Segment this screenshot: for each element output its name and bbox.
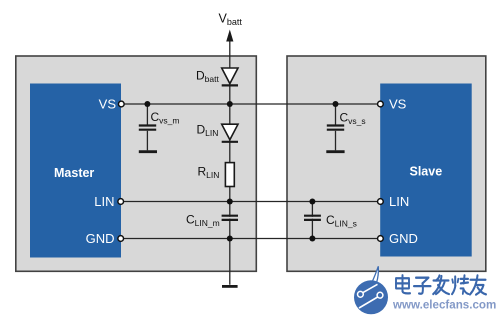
- master ECU enclosure: [16, 56, 256, 271]
- junction Cvs_s: [333, 101, 339, 107]
- svg-text:LIN: LIN: [94, 194, 114, 209]
- junction CLIN_s top: [309, 199, 315, 205]
- junction VS-rail: [227, 101, 233, 107]
- ground Cvs_s: [326, 150, 344, 153]
- watermark logo stem: [372, 266, 379, 283]
- diode DLIN: [222, 124, 238, 142]
- resistor RLIN: [225, 163, 234, 187]
- junction CLIN_s bottom: [309, 236, 315, 242]
- svg-text:VS: VS: [389, 97, 407, 112]
- hanzi shao: [452, 275, 469, 294]
- master node IC: [30, 84, 121, 258]
- svg-text:LIN: LIN: [389, 194, 409, 209]
- watermark logo disc: [354, 280, 388, 314]
- pin slave LIN: [378, 199, 384, 205]
- watermark brand text: [396, 275, 486, 294]
- svg-text:VS: VS: [99, 97, 117, 112]
- junction LIN-rail: [227, 199, 233, 205]
- hanzi zi: [414, 278, 431, 294]
- svg-text:GND: GND: [389, 231, 418, 246]
- pin master LIN: [118, 199, 124, 205]
- svg-text:GND: GND: [86, 231, 115, 246]
- pin slave VS: [378, 101, 384, 107]
- hanzi you: [470, 275, 486, 294]
- slave ECU enclosure: [287, 56, 486, 271]
- hanzi fa: [433, 275, 449, 294]
- capacitor CLIN_s: [304, 202, 321, 239]
- junction Cvs_m: [144, 101, 150, 107]
- svg-text:Master: Master: [54, 166, 94, 180]
- pin master VS: [118, 101, 124, 107]
- svg-text:Slave: Slave: [410, 164, 443, 178]
- node GND net wire: [121, 238, 381, 240]
- capacitor Cvs_m: [139, 104, 156, 150]
- pin master GND: [118, 236, 124, 242]
- slave node IC: [380, 84, 472, 257]
- hanzi dian: [396, 275, 410, 293]
- Vbatt arrow: [226, 30, 233, 42]
- pin slave GND: [378, 236, 384, 242]
- ground main: [222, 285, 238, 288]
- capacitor Cvs_s: [327, 104, 344, 150]
- wire Vbatt vertical rail: [229, 40, 231, 285]
- capacitor CLIN_m: [222, 216, 238, 220]
- node VS net wire: [121, 103, 380, 105]
- ground Cvs_m: [139, 150, 157, 153]
- node LIN net wire: [121, 201, 381, 203]
- junction GND-rail: [227, 236, 233, 242]
- svg-text:Vbatt: Vbatt: [219, 12, 243, 28]
- diode Dbatt: [222, 68, 238, 85]
- svg-text:www.elecfans.com: www.elecfans.com: [392, 299, 496, 312]
